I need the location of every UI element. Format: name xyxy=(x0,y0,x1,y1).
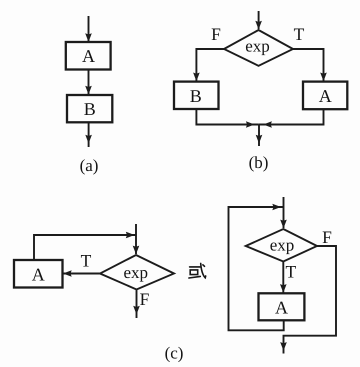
svg-text:A: A xyxy=(275,298,288,318)
wire: exit arrow below box B of (a) xyxy=(85,122,92,147)
svg-text:exp: exp xyxy=(124,263,149,282)
box A of (c) left xyxy=(14,260,63,288)
svg-text:(a): (a) xyxy=(80,156,99,175)
wire: from box B bottom to centre junction of (b) xyxy=(196,109,259,128)
wire: exit arrow below junction of (b) xyxy=(256,125,263,147)
box B of (b) xyxy=(174,82,219,109)
wire: entry arrow into diamond of (b) xyxy=(255,11,262,30)
decision diamond exp of (c) right xyxy=(246,229,317,262)
box A of (a) xyxy=(66,42,111,70)
wire: entry arrow into diamond of (c) left xyxy=(133,224,140,254)
wire: F exit arrow below diamond of (c) left xyxy=(133,290,140,319)
wire: T arrow from diamond into box A of (c) right xyxy=(280,262,287,293)
wire: T arrow from diamond into box A of (c) left xyxy=(63,270,100,277)
svg-text:F: F xyxy=(140,289,150,309)
svg-text:F: F xyxy=(211,24,221,44)
svg-text:exp: exp xyxy=(245,37,270,56)
wire: loop-back from box A bottom around left side to junction of (c) right xyxy=(229,204,284,331)
box B of (a) xyxy=(67,95,112,122)
svg-text:T: T xyxy=(81,251,92,271)
svg-text:F: F xyxy=(322,227,332,247)
wire: entry arrow into box A of (a) xyxy=(85,16,92,42)
svg-text:A: A xyxy=(82,46,95,66)
svg-text:T: T xyxy=(285,262,296,282)
wire: F branch from diamond right around to exit arrow of (c) right xyxy=(280,246,336,354)
svg-text:exp: exp xyxy=(270,236,295,255)
svg-text:B: B xyxy=(84,99,96,119)
svg-text:A: A xyxy=(319,86,332,106)
box A of (b) xyxy=(303,82,347,110)
box A of (c) right xyxy=(259,293,305,320)
svg-text:(c): (c) xyxy=(165,344,184,363)
wire: loop-back from box A top to entry line of (c) left xyxy=(34,232,136,260)
wire: from box A bottom to centre junction of (b) xyxy=(259,109,324,128)
decision diamond exp of (b) xyxy=(224,30,293,66)
svg-text:A: A xyxy=(32,265,45,285)
wire: arrow from box A to box B of (a) xyxy=(85,70,92,95)
wire: entry arrow into diamond of (c) right xyxy=(280,197,287,228)
wire: T branch from diamond to box A of (b) xyxy=(293,49,327,81)
svg-text:T: T xyxy=(294,24,305,44)
svg-text:B: B xyxy=(190,86,202,106)
wire: F branch from diamond to box B of (b) xyxy=(193,49,224,81)
glyph: Chinese character 或 (or) xyxy=(189,263,206,278)
svg-text:(b): (b) xyxy=(249,153,269,172)
decision diamond exp of (c) left xyxy=(100,255,174,290)
